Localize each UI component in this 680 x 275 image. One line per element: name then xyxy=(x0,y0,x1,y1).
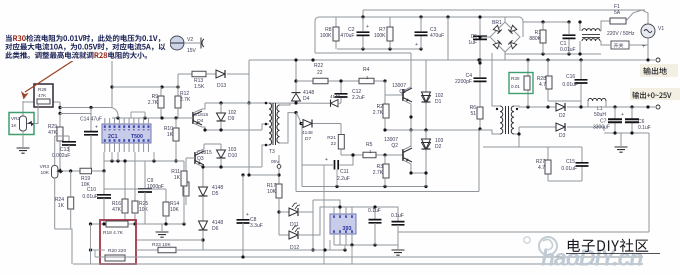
wire output plus rail xyxy=(588,106,655,108)
wire bottom left return xyxy=(55,229,72,264)
wire VR2 bottom xyxy=(22,131,24,147)
resistor R12 xyxy=(177,87,179,96)
wire R5 row xyxy=(341,154,363,156)
dc source V2 xyxy=(170,36,184,50)
svg-text:Q2: Q2 xyxy=(391,143,398,149)
wire R19 to IC xyxy=(92,152,105,171)
resistor R13 xyxy=(192,71,206,77)
wire mid stubs xyxy=(111,152,113,161)
svg-text:5A: 5A xyxy=(614,10,621,16)
svg-text:D4: D4 xyxy=(303,96,310,102)
diode D9 xyxy=(220,103,222,113)
resistor R8 xyxy=(335,17,337,27)
svg-text:470uF: 470uF xyxy=(340,33,354,39)
svg-text:2.2uF: 2.2uF xyxy=(337,176,350,182)
svg-text:R4: R4 xyxy=(363,67,370,73)
resistor R5 xyxy=(363,152,376,158)
svg-text:Q4: Q4 xyxy=(197,118,204,124)
svg-text:D3: D3 xyxy=(559,133,566,139)
svg-text:C15: C15 xyxy=(566,159,575,165)
wire R23 to IC2 xyxy=(176,249,345,251)
svg-text:haoDIY.cn: haoDIY.cn xyxy=(541,245,643,271)
svg-text:C14 47uF: C14 47uF xyxy=(80,117,102,123)
resistor R28b 4.7 xyxy=(547,60,549,76)
svg-text:2.7K: 2.7K xyxy=(373,110,384,116)
resistor R18 xyxy=(106,221,128,227)
wire D6 to feedback xyxy=(201,238,204,241)
resistor R3 xyxy=(384,155,386,164)
resistor R28 xyxy=(37,99,50,104)
transformer T3 xyxy=(269,103,272,145)
resistor R22 xyxy=(313,78,328,84)
wire long rail low2 xyxy=(73,263,643,265)
diode D5 xyxy=(202,167,204,187)
resistor R30 current sense xyxy=(527,60,529,76)
transistor Q4 C1815 xyxy=(192,112,194,124)
wire switch to choke xyxy=(601,41,611,45)
resistor R20 xyxy=(105,255,125,261)
wire IC2 bottom rail xyxy=(334,244,398,246)
svg-text:2.7K: 2.7K xyxy=(373,170,384,176)
wire R28 node xyxy=(59,102,61,114)
capacitor C3 xyxy=(420,17,422,31)
wire VR3 bottom xyxy=(54,178,56,229)
common-mode choke L0 xyxy=(579,22,581,31)
wire R13 to D13 xyxy=(206,73,216,75)
svg-text:R22: R22 xyxy=(314,63,323,69)
wire IC2 pins bottom xyxy=(333,234,335,245)
svg-text:2C1: 2C1 xyxy=(108,134,118,140)
wire IC2 pin drop xyxy=(351,245,353,264)
wire R23 row xyxy=(136,249,158,251)
svg-text:Q1: Q1 xyxy=(399,89,406,95)
svg-text:R23 10K: R23 10K xyxy=(152,242,171,248)
svg-text:22: 22 xyxy=(317,70,323,76)
wire led out lower xyxy=(298,207,334,235)
wire ground rail mid xyxy=(91,223,185,225)
wire bridge top to C1 xyxy=(504,17,506,22)
svg-text:4.7: 4.7 xyxy=(538,165,545,171)
wire Q1 collector xyxy=(403,53,411,91)
wire IC2 pins top xyxy=(333,207,335,214)
svg-text:10K: 10K xyxy=(40,170,49,176)
switch box xyxy=(611,41,629,49)
potentiometer VR2 xyxy=(22,101,24,116)
ground output xyxy=(620,133,622,146)
wire Q3 collector xyxy=(195,144,204,153)
wire primary bottom xyxy=(480,130,500,134)
wire Q2 collector xyxy=(403,146,411,150)
ac source V1 xyxy=(641,24,655,38)
wire VR2 wiper xyxy=(34,103,38,124)
wire D13 to T3 xyxy=(227,74,249,103)
svg-text:D7: D7 xyxy=(305,136,311,142)
resistor R17 xyxy=(276,184,282,198)
capacitor C9 xyxy=(144,161,146,188)
svg-text:R5: R5 xyxy=(366,142,373,148)
terminal output ground xyxy=(656,58,660,62)
svg-text:+: + xyxy=(246,212,249,218)
wire feedback mid xyxy=(398,231,649,233)
highlight box R28 xyxy=(34,84,53,107)
svg-text:100K: 100K xyxy=(374,33,386,39)
capacitor C6 output xyxy=(631,107,633,119)
svg-text:0.01uF: 0.01uF xyxy=(562,82,578,88)
annotation text xyxy=(6,35,12,42)
wire band top xyxy=(319,16,519,18)
svg-text:47K: 47K xyxy=(48,130,58,136)
svg-text:1K: 1K xyxy=(58,203,65,209)
svg-text:2.7K: 2.7K xyxy=(180,97,191,103)
wire Q3 base xyxy=(186,157,195,159)
wire top rail +310V xyxy=(363,9,645,11)
highlight box R18 R20 xyxy=(100,220,136,264)
wire box stub xyxy=(94,250,96,257)
transistor Q3 C1815 xyxy=(194,152,196,164)
resistor R21 xyxy=(313,123,341,125)
wire long rail low1 xyxy=(95,256,643,258)
svg-text:3300uF: 3300uF xyxy=(593,125,610,131)
capacitor C14 xyxy=(90,108,92,132)
ic IC2 LM393 xyxy=(330,214,356,234)
wire R22 feed xyxy=(295,60,297,92)
resistor R15 xyxy=(185,158,187,182)
capacitor C11 xyxy=(302,164,333,166)
wire Q1 emitter xyxy=(403,100,411,147)
ic IC1 TL494 xyxy=(102,124,151,143)
wire Q4 base rail xyxy=(112,117,189,119)
capacitor C5 xyxy=(479,17,481,35)
resistor R7 xyxy=(389,17,391,27)
wire 15V rail xyxy=(112,86,178,88)
wire band inner rail xyxy=(337,48,421,50)
ground IC2 xyxy=(397,245,399,249)
arrow annotation pointer xyxy=(25,60,74,92)
svg-text:D2: D2 xyxy=(435,144,442,150)
svg-text:+: + xyxy=(325,157,328,163)
resistor R4 xyxy=(359,78,374,84)
capacitor C15 xyxy=(581,147,583,162)
svg-text:393: 393 xyxy=(342,226,351,232)
testpoint 05V xyxy=(278,155,280,165)
resistor R2 xyxy=(384,95,386,104)
watermark logo xyxy=(539,237,557,255)
ground mid xyxy=(161,224,163,231)
svg-text:D5: D5 xyxy=(212,191,219,197)
svg-text:C10: C10 xyxy=(87,187,96,193)
svg-text:D1: D1 xyxy=(435,99,442,105)
svg-text:R18 4.7K: R18 4.7K xyxy=(103,230,124,236)
svg-text:D13: D13 xyxy=(217,83,226,89)
svg-text:+: + xyxy=(415,42,418,48)
label output ground xyxy=(640,64,678,77)
svg-text:0.1uF: 0.1uF xyxy=(368,208,381,214)
wire primary top xyxy=(492,53,500,106)
wire C4 column xyxy=(479,60,481,77)
wire mid rail B xyxy=(104,188,145,190)
svg-text:T3: T3 xyxy=(269,149,275,155)
wire primary section left edge inner xyxy=(301,124,303,187)
svg-text:C16: C16 xyxy=(566,74,575,80)
wire IC1 pins bottom xyxy=(104,143,106,152)
svg-text:Q3: Q3 xyxy=(197,156,204,162)
svg-text:0.01uF: 0.01uF xyxy=(82,194,98,200)
ground VR2 xyxy=(17,148,30,153)
capacitor C16 xyxy=(580,60,582,79)
wire T3 top tap row xyxy=(249,102,330,104)
svg-text:10K: 10K xyxy=(170,207,180,213)
wire T3 mid tap xyxy=(262,124,269,130)
transistor Q1 13007 xyxy=(385,81,403,95)
wire switch to V1 xyxy=(629,38,648,45)
capacitor C17 bypass xyxy=(369,220,382,223)
wire VR3 wiper to R19 xyxy=(63,170,80,172)
wire Q4 emitter row xyxy=(193,123,205,130)
zener D15 protection xyxy=(425,130,427,139)
wire secondary snubber top xyxy=(483,146,582,148)
resistor R1 xyxy=(542,22,544,30)
wire T3 sec top xyxy=(280,103,291,105)
capacitor C12 xyxy=(340,81,342,93)
svg-text:R20 220: R20 220 xyxy=(108,248,126,254)
svg-text:3.3uF: 3.3uF xyxy=(250,223,263,229)
wire IC1 pins top xyxy=(104,118,106,124)
capacitor C1 input xyxy=(568,22,570,34)
wire D7 row xyxy=(301,123,303,125)
svg-text:R30: R30 xyxy=(511,76,520,81)
svg-text:100K: 100K xyxy=(320,33,332,39)
wire 15V feed xyxy=(111,60,113,108)
svg-text:2.2uF: 2.2uF xyxy=(352,95,365,101)
wire D3 cathode to cap rail xyxy=(567,127,604,131)
svg-text:C11: C11 xyxy=(340,169,349,175)
svg-text:D9: D9 xyxy=(228,116,235,122)
svg-text:T500: T500 xyxy=(131,134,143,140)
diode D13 xyxy=(216,70,225,78)
wire primary section right edge xyxy=(478,130,480,192)
node band top dots xyxy=(361,15,364,18)
transformer T2 xyxy=(500,106,503,134)
svg-text:0.01uF: 0.01uF xyxy=(560,47,576,53)
svg-text:10K: 10K xyxy=(267,189,277,195)
svg-text:47K: 47K xyxy=(112,207,122,213)
wire primary section bottom xyxy=(296,191,479,193)
label output voltage xyxy=(630,88,680,100)
svg-text:880K: 880K xyxy=(529,36,541,42)
resistor R10 xyxy=(175,118,177,128)
wire emitter return xyxy=(411,172,426,174)
svg-text:D10: D10 xyxy=(228,153,237,159)
svg-text:BR1: BR1 xyxy=(492,20,502,26)
diode D10 xyxy=(220,144,222,150)
svg-text:R28: R28 xyxy=(38,87,47,92)
capacitor C2 xyxy=(362,17,364,31)
svg-text:220V / 50Hz: 220V / 50Hz xyxy=(607,31,635,37)
capacitor C13 xyxy=(68,136,70,141)
svg-text:50uH: 50uH xyxy=(594,112,606,118)
wire T3 bottom tap xyxy=(262,145,269,167)
wire feedback box xyxy=(91,249,106,251)
resistor R29 xyxy=(59,114,61,127)
resistor R14 xyxy=(165,189,167,202)
wire node row2 xyxy=(60,113,91,115)
resistor R25 xyxy=(134,161,136,201)
diode D6 xyxy=(199,221,208,230)
potentiometer VR3 xyxy=(54,136,56,166)
svg-text:51: 51 xyxy=(470,111,476,117)
led D12 xyxy=(279,234,289,236)
diode D4 xyxy=(292,93,301,101)
svg-text:10K: 10K xyxy=(139,207,149,213)
wire fuse to source V1 xyxy=(626,10,648,24)
diode D8 xyxy=(331,100,339,107)
svg-text:2.7K: 2.7K xyxy=(148,100,159,106)
svg-text:4148: 4148 xyxy=(330,94,341,99)
resistor R9 xyxy=(160,87,162,96)
wire sense bottom xyxy=(548,100,581,102)
svg-text:+: + xyxy=(621,112,624,118)
transistor Q2 13007 xyxy=(402,149,404,161)
wire band left xyxy=(314,21,316,53)
inductor L1 xyxy=(567,106,588,108)
svg-text:VR3: VR3 xyxy=(40,164,50,170)
resistor R16 xyxy=(124,161,126,199)
wire secondary top tap xyxy=(514,106,556,107)
svg-text:22: 22 xyxy=(331,141,337,147)
wire top rail stub xyxy=(362,10,364,17)
led D11 xyxy=(279,211,289,213)
svg-text:1K: 1K xyxy=(11,123,18,128)
resistor R19 xyxy=(80,168,92,174)
resistor R24 xyxy=(70,171,72,197)
wire half bridge node xyxy=(385,129,479,131)
wire Q3 emitter row xyxy=(195,163,204,167)
wire sense row xyxy=(23,101,34,103)
wire snubber bottom xyxy=(548,180,582,182)
svg-text:1uF: 1uF xyxy=(468,40,477,46)
wire bridge bottom rail xyxy=(504,52,506,60)
connector J1 xyxy=(184,42,200,44)
wire output cap ground rail xyxy=(604,132,649,134)
svg-text:+: + xyxy=(366,24,369,30)
resistor R23 xyxy=(158,247,176,253)
wire comparator drop xyxy=(323,165,325,264)
capacitor C4 xyxy=(474,78,487,81)
svg-text:V2: V2 xyxy=(187,37,193,43)
resistor R11 xyxy=(183,161,185,171)
svg-text:V1: V1 xyxy=(658,26,664,32)
capacitor C7 output xyxy=(614,107,616,119)
bridge rectifier BR1 xyxy=(480,36,490,38)
wire C11 column stub xyxy=(336,170,338,187)
highlight box R30 xyxy=(509,73,533,94)
wire primary return inner xyxy=(302,186,426,188)
wire R13 feed xyxy=(177,74,179,87)
svg-text:C1815: C1815 xyxy=(194,112,208,118)
zener D14 protection xyxy=(425,60,427,92)
node band bottom dots xyxy=(361,47,364,50)
diode D7 xyxy=(303,120,312,128)
fuse F1 xyxy=(601,21,610,31)
svg-text:1K: 1K xyxy=(167,132,174,138)
wire R4 row xyxy=(341,80,359,82)
capacitor C10 xyxy=(103,171,105,194)
wire R17 feed xyxy=(248,103,250,175)
svg-text:D2: D2 xyxy=(559,113,566,119)
wire primary section left edge outer xyxy=(295,113,297,192)
wire output ground rail xyxy=(249,59,655,61)
svg-text:15V: 15V xyxy=(187,48,197,54)
svg-text:2200pF: 2200pF xyxy=(455,79,472,85)
resistor R6 xyxy=(477,107,483,119)
wire mid rail A xyxy=(104,160,184,162)
wire feedback right vertical xyxy=(648,133,650,232)
svg-text:0.1uF: 0.1uF xyxy=(391,213,404,219)
resistor R27 xyxy=(547,147,549,160)
svg-text:1K: 1K xyxy=(174,175,181,181)
terminal output plus xyxy=(656,105,660,109)
highlight box VR2 xyxy=(9,113,34,135)
wire node row1 xyxy=(60,107,110,109)
capacitor C8 xyxy=(242,175,244,219)
wire Q4 collector row xyxy=(193,103,205,113)
wire secondary bottom tap xyxy=(514,133,519,135)
wire IC2 top to caps xyxy=(352,207,375,219)
svg-text:47K: 47K xyxy=(38,93,47,98)
diode D2 output rectifier xyxy=(556,103,565,111)
annotation white backing xyxy=(2,33,170,61)
svg-text:0.01: 0.01 xyxy=(511,84,520,89)
capacitor C18 bypass xyxy=(392,222,405,225)
svg-text:+: + xyxy=(95,125,98,131)
wire band bottom xyxy=(315,52,411,54)
svg-text:4.7: 4.7 xyxy=(539,82,546,88)
diode D3 output rectifier xyxy=(556,123,565,131)
svg-text:470uF: 470uF xyxy=(430,33,444,39)
wire led out upper xyxy=(298,211,313,213)
svg-text:VR2: VR2 xyxy=(11,116,20,121)
wire T3 sec bottom xyxy=(280,113,297,143)
watermark text main xyxy=(568,239,580,252)
svg-text:0.01uF: 0.01uF xyxy=(561,166,577,172)
svg-text:D6: D6 xyxy=(212,226,219,232)
svg-text:1.5K: 1.5K xyxy=(194,84,205,90)
svg-text:R21: R21 xyxy=(327,135,336,141)
wire Q2 emitter xyxy=(403,160,411,173)
svg-text:0.1uF: 0.1uF xyxy=(638,125,651,131)
svg-text:4148: 4148 xyxy=(302,130,313,136)
